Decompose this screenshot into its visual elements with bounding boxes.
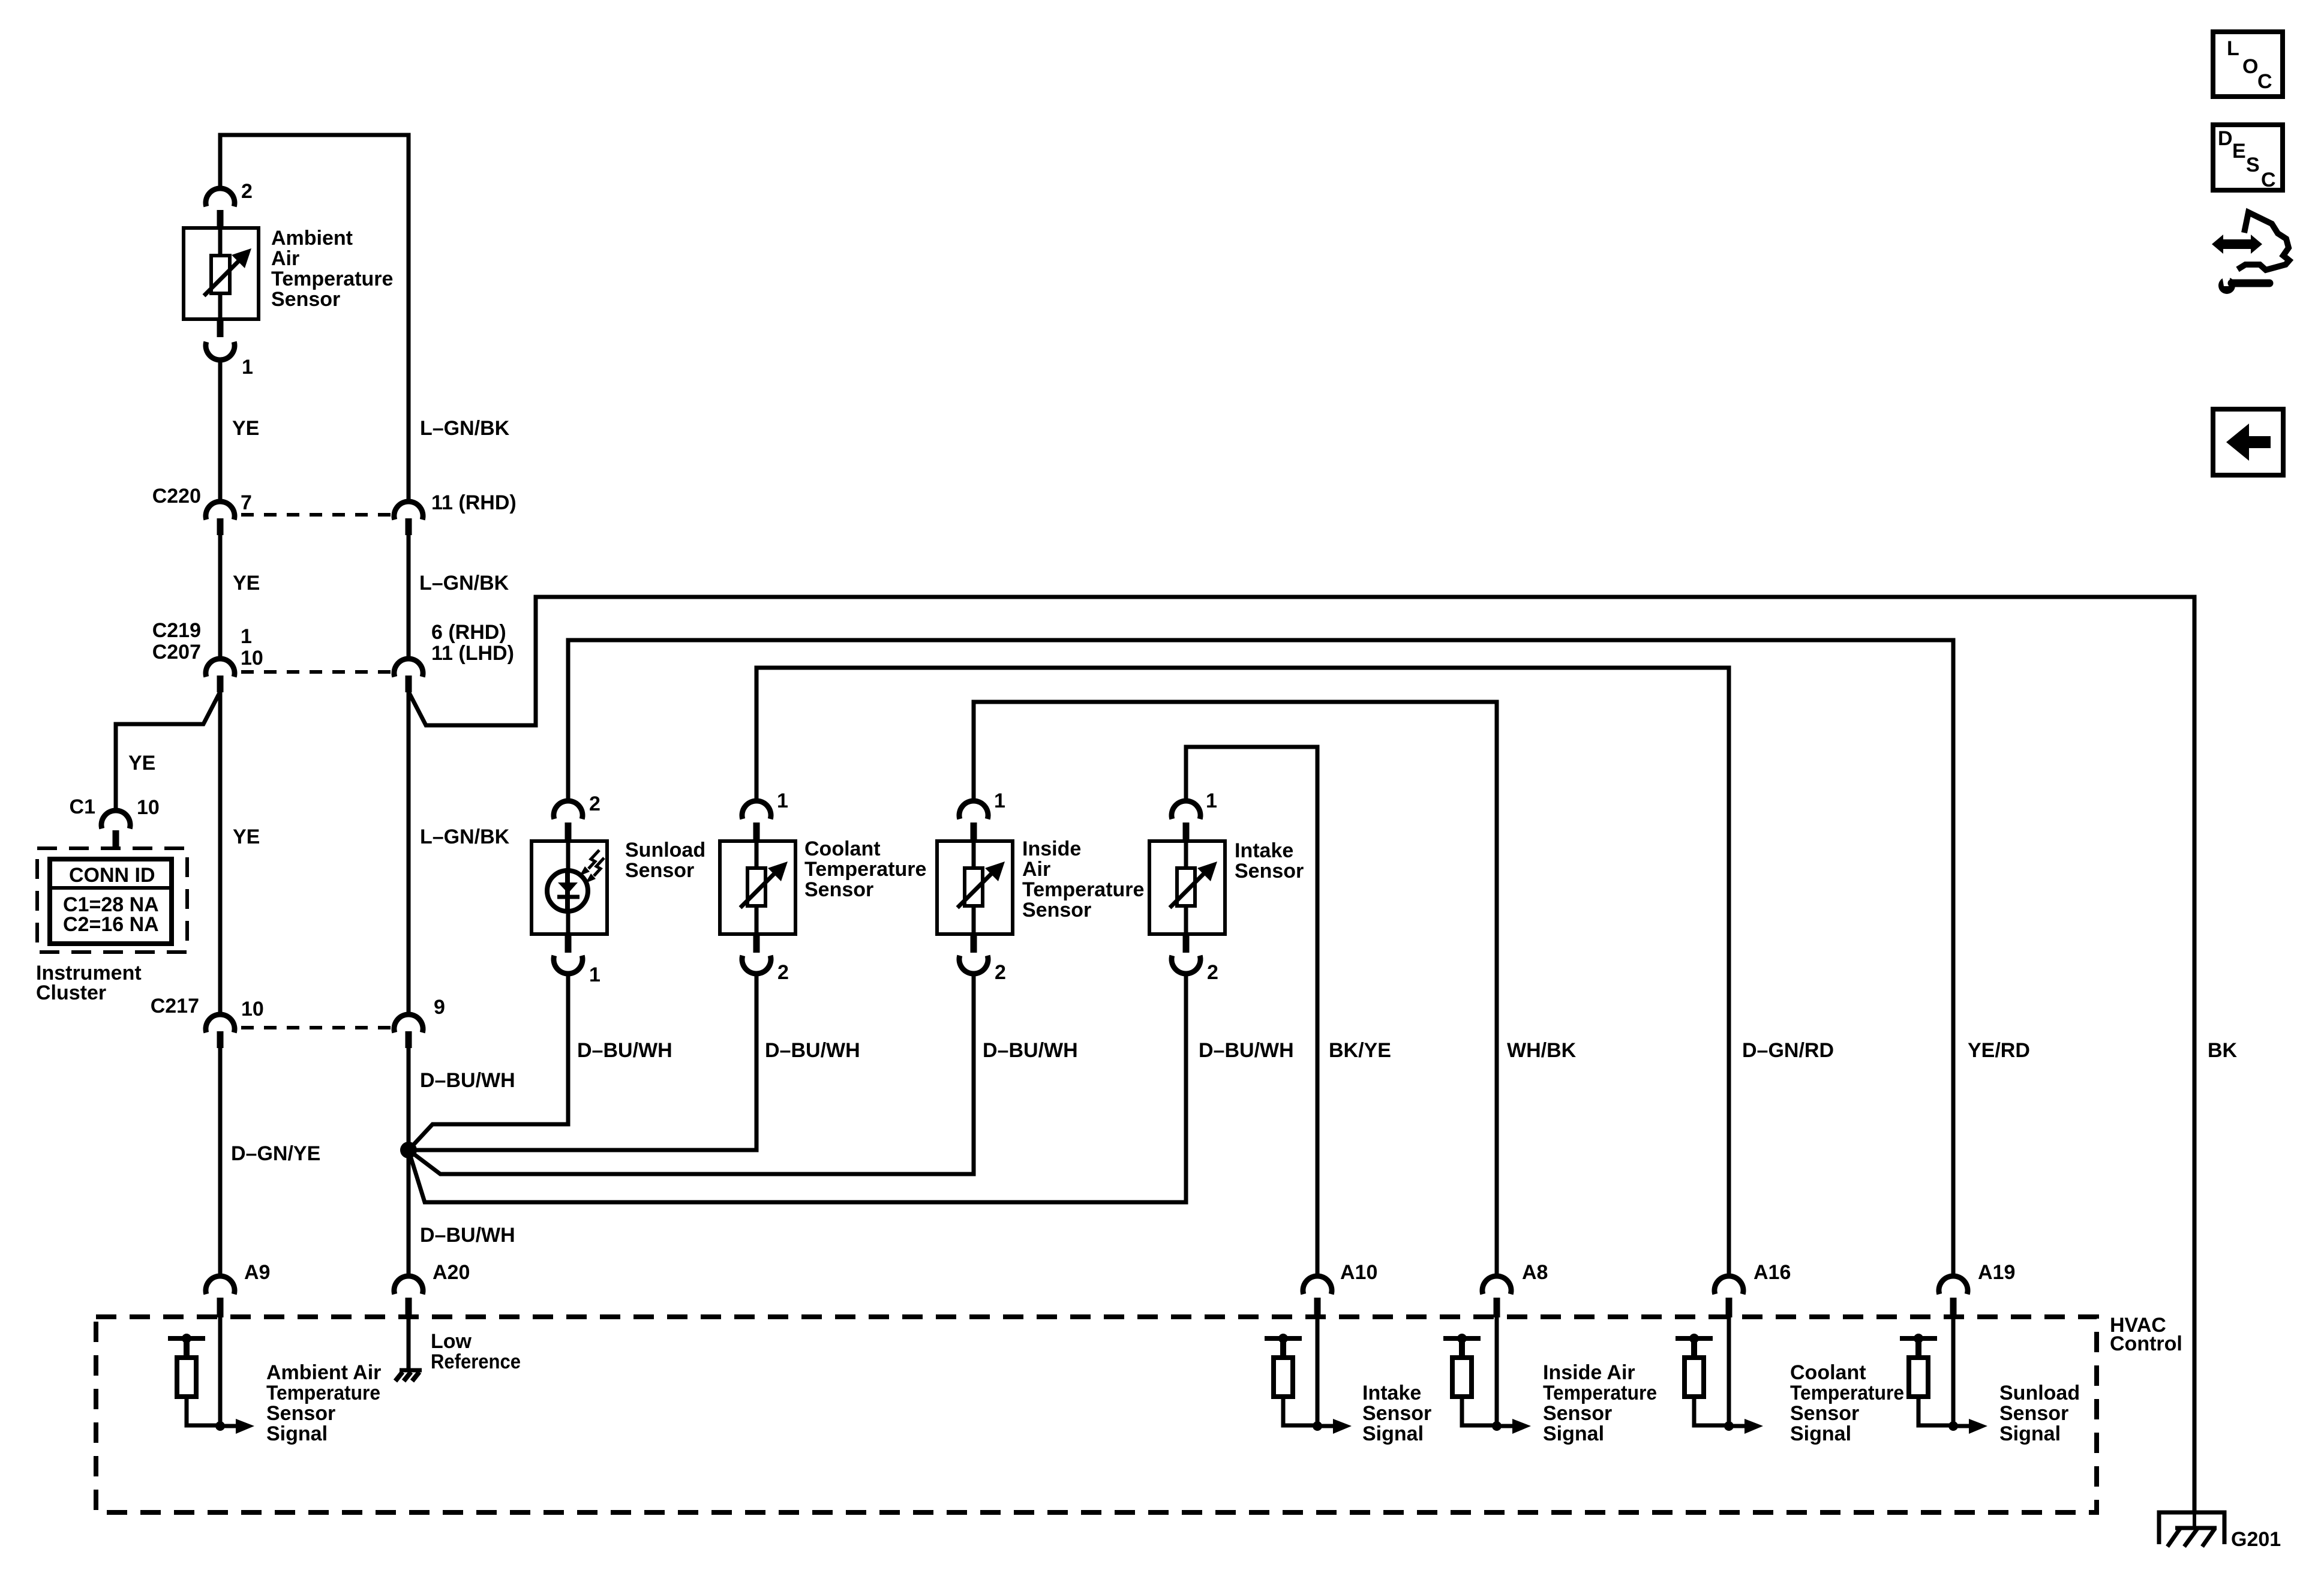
svg-text:L–GN/BK: L–GN/BK — [419, 572, 509, 595]
svg-text:Low: Low — [431, 1330, 472, 1353]
svg-text:Signal: Signal — [1362, 1422, 1424, 1445]
svg-text:1: 1 — [1206, 789, 1217, 812]
resistor pullup A8 inside air signal — [1443, 1334, 1657, 1445]
svg-text:1: 1 — [777, 789, 788, 812]
HVAC control box — [96, 1314, 2182, 1512]
svg-text:10: 10 — [137, 796, 160, 819]
connector pin 1 intake sensor — [1172, 789, 1217, 841]
svg-text:WH/BK: WH/BK — [1507, 1039, 1577, 1062]
svg-text:Sensor: Sensor — [1999, 1402, 2068, 1425]
icon DESC box — [2213, 125, 2283, 191]
connector pin A16 — [1715, 1261, 1791, 1317]
svg-text:Sensor: Sensor — [1022, 899, 1091, 921]
svg-text:6 (RHD): 6 (RHD) — [431, 621, 506, 644]
connector pin A8 — [1482, 1261, 1548, 1317]
svg-text:E: E — [2232, 140, 2246, 163]
svg-text:CONN ID: CONN ID — [69, 864, 155, 887]
svg-text:9: 9 — [434, 996, 445, 1019]
svg-text:2: 2 — [995, 961, 1006, 984]
svg-text:Sensor: Sensor — [271, 288, 340, 311]
wire jog to C1 instrument cluster — [116, 692, 220, 811]
connector pin 1 ambient air temperature sensor — [206, 319, 253, 379]
svg-text:YE: YE — [233, 572, 260, 595]
svg-text:Signal: Signal — [266, 1422, 328, 1445]
connector pin 1 coolant temperature sensor — [742, 789, 788, 841]
svg-text:Cluster: Cluster — [36, 981, 106, 1004]
connector C220 — [152, 485, 517, 535]
svg-text:C: C — [2257, 70, 2272, 93]
svg-text:YE: YE — [128, 752, 155, 775]
connector pin 2 ambient air temperature sensor — [206, 180, 253, 228]
wire coolant bottom branch — [409, 973, 756, 1150]
svg-text:A9: A9 — [244, 1261, 270, 1284]
svg-text:Sunload: Sunload — [625, 839, 705, 861]
wire inside-air bottom branch — [409, 973, 974, 1174]
ambient air temperature sensor — [184, 227, 393, 319]
svg-text:D–GN/YE: D–GN/YE — [231, 1142, 320, 1165]
wire right L-GN/BK C220 to C219 — [407, 535, 411, 659]
svg-text:2: 2 — [1207, 961, 1218, 984]
svg-text:YE: YE — [232, 417, 259, 440]
connector pin A20 — [394, 1261, 470, 1317]
connector C217 — [151, 995, 445, 1048]
svg-text:Intake: Intake — [1362, 1382, 1421, 1404]
svg-text:C217: C217 — [151, 995, 199, 1017]
svg-text:Sensor: Sensor — [625, 859, 694, 882]
wire left YE C220 to C219 — [218, 535, 223, 659]
svg-text:Temperature: Temperature — [1790, 1382, 1904, 1404]
connector pin 1 sunload sensor — [554, 934, 600, 986]
sunload sensor — [532, 839, 705, 934]
svg-text:C: C — [2261, 169, 2276, 191]
wire A19 inside HVAC — [1951, 1317, 1956, 1428]
svg-text:11 (RHD): 11 (RHD) — [431, 491, 517, 514]
svg-text:D–BU/WH: D–BU/WH — [765, 1039, 860, 1062]
ground G201 — [2159, 1511, 2281, 1551]
svg-text:D–BU/WH: D–BU/WH — [420, 1069, 515, 1092]
instrument cluster box — [36, 848, 187, 1004]
svg-text:O: O — [2242, 55, 2258, 78]
svg-text:A8: A8 — [1522, 1261, 1548, 1284]
svg-text:A16: A16 — [1753, 1261, 1791, 1284]
svg-text:1: 1 — [242, 356, 253, 379]
svg-text:A19: A19 — [1978, 1261, 2015, 1284]
svg-text:2: 2 — [777, 961, 789, 984]
connector C1 instrument cluster — [70, 795, 160, 847]
wire left YE pin1 to C220 — [218, 359, 223, 502]
svg-text:YE: YE — [233, 825, 260, 848]
connector pin 2 coolant temperature sensor — [742, 934, 789, 984]
svg-text:C219: C219 — [152, 619, 201, 642]
inside air temperature sensor — [937, 837, 1144, 934]
svg-text:L–GN/BK: L–GN/BK — [420, 825, 510, 848]
svg-text:Temperature: Temperature — [1022, 878, 1144, 901]
wire right jog to BK column and G201 — [409, 597, 2194, 1511]
svg-text:Sensor: Sensor — [804, 878, 873, 901]
svg-text:Inside: Inside — [1022, 837, 1081, 860]
svg-text:11 (LHD): 11 (LHD) — [431, 642, 514, 665]
svg-text:C2=16 NA: C2=16 NA — [63, 913, 159, 936]
svg-text:C1: C1 — [70, 795, 95, 818]
svg-text:Sensor: Sensor — [1790, 1402, 1859, 1425]
svg-text:Sensor: Sensor — [1235, 860, 1304, 882]
svg-text:Reference: Reference — [431, 1350, 521, 1373]
svg-text:Signal: Signal — [1543, 1422, 1604, 1445]
wire left YE C219/C207 to C217 — [218, 692, 223, 1015]
ground low reference A20 — [395, 1330, 521, 1381]
icon body repair — [2212, 212, 2289, 294]
svg-text:D–GN/RD: D–GN/RD — [1742, 1039, 1834, 1062]
svg-text:2: 2 — [241, 180, 253, 203]
svg-text:A10: A10 — [1340, 1261, 1377, 1284]
svg-text:Ambient: Ambient — [271, 227, 353, 250]
svg-text:D–BU/WH: D–BU/WH — [1199, 1039, 1294, 1062]
wire sunload top to YE/RD column A19 — [568, 640, 1953, 1277]
svg-text:L–GN/BK: L–GN/BK — [420, 417, 510, 440]
svg-text:C220: C220 — [152, 485, 201, 508]
svg-text:S: S — [2246, 154, 2260, 176]
connector pin 1 inside air temperature sensor — [959, 789, 1005, 841]
svg-text:Sensor: Sensor — [266, 1402, 335, 1425]
wire A20 inside HVAC — [407, 1317, 411, 1371]
wire inside-air top to WH/BK column A8 — [974, 702, 1497, 1277]
svg-text:1: 1 — [589, 963, 600, 986]
resistor pullup A19 sunload signal — [1900, 1334, 2080, 1445]
connector C219 C207 — [152, 619, 514, 692]
svg-text:BK: BK — [2208, 1039, 2238, 1062]
wire ambient loop top — [220, 135, 409, 502]
svg-text:D–BU/WH: D–BU/WH — [983, 1039, 1078, 1062]
wire left D-GN/YE C217 to A9 — [218, 1047, 223, 1277]
svg-text:Temperature: Temperature — [266, 1382, 380, 1404]
svg-text:D–BU/WH: D–BU/WH — [577, 1039, 672, 1062]
resistor pullup A10 intake signal — [1265, 1334, 1431, 1445]
wire intake bottom branch — [409, 973, 1186, 1202]
svg-text:Coolant: Coolant — [804, 837, 881, 860]
coolant temperature sensor — [720, 837, 926, 934]
svg-text:Coolant: Coolant — [1790, 1361, 1866, 1384]
icon back arrow box — [2213, 409, 2283, 475]
svg-text:Inside Air: Inside Air — [1543, 1361, 1635, 1384]
resistor pullup A9 ambient signal — [168, 1334, 381, 1445]
svg-text:Signal: Signal — [1790, 1422, 1851, 1445]
svg-text:L: L — [2227, 37, 2239, 60]
wire coolant top to D-GN/RD column A16 — [756, 668, 1729, 1277]
svg-text:D–BU/WH: D–BU/WH — [420, 1224, 515, 1247]
svg-text:Temperature: Temperature — [1543, 1382, 1657, 1404]
connector pin A9 — [206, 1261, 270, 1317]
svg-text:Air: Air — [271, 247, 299, 270]
wire A16 inside HVAC — [1727, 1317, 1731, 1428]
svg-text:BK/YE: BK/YE — [1329, 1039, 1391, 1062]
svg-text:Intake: Intake — [1235, 839, 1293, 862]
svg-text:Ambient Air: Ambient Air — [266, 1361, 381, 1384]
svg-text:10: 10 — [241, 998, 264, 1020]
svg-text:2: 2 — [589, 792, 600, 815]
svg-text:Sensor: Sensor — [1362, 1402, 1431, 1425]
wire intake top to BK/YE column A10 — [1186, 747, 1317, 1277]
svg-text:1: 1 — [241, 625, 252, 648]
svg-text:Temperature: Temperature — [804, 858, 926, 881]
svg-text:C207: C207 — [152, 641, 201, 664]
wire A10 inside HVAC — [1316, 1317, 1320, 1428]
wire right D-BU/WH C217 to A20 — [407, 1047, 411, 1277]
svg-text:7: 7 — [241, 491, 252, 514]
svg-text:YE/RD: YE/RD — [1968, 1039, 2030, 1062]
wire sunload bottom branch — [409, 973, 568, 1150]
wire right L-GN/BK C219/C207 to C217 — [407, 692, 411, 1015]
icon LOC box — [2213, 32, 2283, 97]
svg-text:Sensor: Sensor — [1543, 1402, 1612, 1425]
node splice junction — [400, 1142, 417, 1158]
resistor pullup A16 coolant signal — [1676, 1334, 1904, 1445]
svg-text:G201: G201 — [2231, 1528, 2281, 1551]
connector pin 2 sunload sensor — [554, 792, 600, 841]
svg-text:Signal: Signal — [1999, 1422, 2061, 1445]
svg-text:Sunload: Sunload — [1999, 1382, 2080, 1404]
svg-text:Control: Control — [2110, 1332, 2182, 1355]
wire A9 inside HVAC — [218, 1317, 223, 1428]
svg-text:1: 1 — [994, 789, 1005, 812]
svg-text:Air: Air — [1022, 858, 1050, 881]
connector pin 2 intake sensor — [1172, 934, 1218, 984]
connector pin 2 inside air temperature sensor — [959, 934, 1006, 984]
connector pin A19 — [1939, 1261, 2015, 1317]
connector pin A10 — [1303, 1261, 1377, 1317]
wire A8 inside HVAC — [1495, 1317, 1499, 1428]
svg-text:A20: A20 — [433, 1261, 470, 1284]
svg-text:D: D — [2218, 127, 2233, 150]
svg-text:Temperature: Temperature — [271, 268, 393, 290]
svg-text:10: 10 — [241, 647, 263, 670]
intake sensor — [1149, 839, 1304, 934]
